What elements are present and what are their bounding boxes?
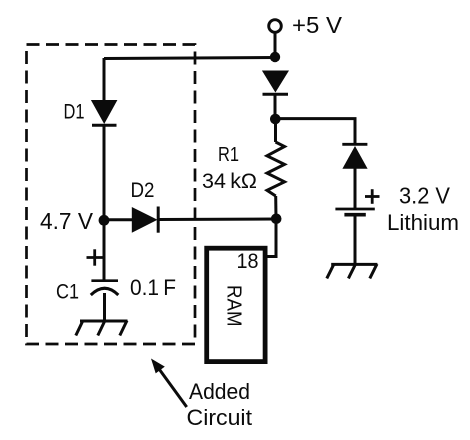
diode D1 (91, 100, 118, 125)
wire right diode to battery (354, 169, 357, 209)
wire terminal to node A (274, 33, 277, 57)
wire top diode cathode to node C (274, 94, 277, 119)
svg-text:4.7 V: 4.7 V (40, 208, 94, 234)
top diode (series diode from +5V) (262, 71, 289, 95)
svg-text:Circuit: Circuit (187, 405, 253, 430)
svg-text:3.2 V: 3.2 V (399, 183, 451, 209)
left ground symbol (76, 321, 128, 336)
+5V terminal circle (269, 20, 282, 33)
svg-text:D1: D1 (64, 101, 85, 124)
wire node C to resistor R1 (274, 119, 277, 142)
dashed box added-circuit boundary (27, 45, 196, 345)
node C junction dot (270, 114, 281, 125)
wire battery to right ground (354, 216, 357, 264)
svg-text:R1: R1 (218, 144, 239, 166)
svg-text:Lithium: Lithium (387, 210, 459, 235)
capacitor C1 (91, 281, 119, 295)
node B junction dot (4.7 V node) (99, 215, 110, 226)
capacitor C1 plus polarity mark (87, 249, 104, 265)
diode D2 (132, 207, 158, 233)
right ground symbol (327, 264, 378, 279)
wire C1 to ground (103, 293, 106, 321)
wire node D to RAM pin 18 (267, 219, 276, 257)
right diode (pointing up) (342, 144, 367, 169)
battery plus polarity mark (365, 189, 380, 204)
wire node C to right branch (276, 119, 356, 144)
wire D2 cathode to node D (159, 218, 276, 222)
resistor R1 zigzag (267, 142, 285, 196)
wire node B down to C1 (103, 220, 106, 280)
svg-text:D2: D2 (131, 179, 155, 202)
arrow pointing to added circuit (151, 359, 187, 408)
wire node B to D2 anode (104, 218, 132, 221)
node D junction dot (271, 214, 282, 225)
RAM chip box (207, 248, 265, 361)
battery BT1 3.2 V lithium (335, 209, 374, 215)
svg-text:+5 V: +5 V (292, 12, 343, 38)
svg-text:34 kΩ: 34 kΩ (202, 170, 257, 193)
wire node A to left branch top (104, 58, 276, 59)
wire D1 cathode to node B (103, 126, 106, 220)
node A junction dot (270, 52, 280, 62)
svg-text:RAM: RAM (223, 285, 245, 327)
svg-text:0.1 F: 0.1 F (130, 275, 176, 300)
wire down to D1 anode (103, 58, 106, 101)
wire R1 to node D (274, 196, 277, 219)
svg-text:18: 18 (237, 250, 259, 273)
svg-text:Added: Added (189, 379, 250, 404)
svg-text:C1: C1 (56, 281, 79, 304)
